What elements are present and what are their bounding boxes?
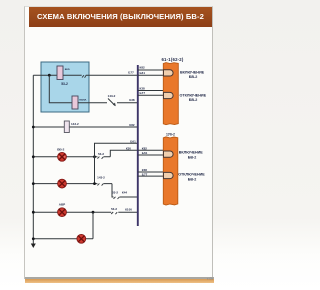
wire lamp БВ-2 row (33, 156, 110, 158)
node on bus row БВ-2 (32, 155, 35, 158)
node on bus row К82 (32, 126, 35, 129)
wire riser lamp4 to АВР row (92, 212, 94, 239)
wire К82 to connector 61-1 (138, 69, 164, 71)
contact pin 1 (X1 вкл.) (164, 70, 174, 76)
svg-text:ОТКЛЮЧЕНИЕ: ОТКЛЮЧЕНИЕ (178, 173, 205, 177)
svg-text:К82: К82 (129, 123, 134, 127)
svg-text:К44: К44 (122, 191, 127, 195)
coil K1 (вкл.) (57, 66, 70, 80)
contact pin 4 (X2 откл.) (164, 172, 174, 178)
wire Б77 to connector 61-1 (138, 94, 164, 96)
svg-text:БВ-2: БВ-2 (189, 98, 198, 102)
switch 53-2 on К44 row (114, 197, 120, 199)
connector X2 1У6-2 (163, 133, 178, 205)
node riser row БВ-2 (93, 155, 96, 158)
svg-text:К38: К38 (129, 98, 134, 102)
wire row К82 (33, 126, 138, 128)
svg-text:53-2: 53-2 (61, 82, 68, 86)
svg-text:БВ-2: БВ-2 (57, 148, 64, 152)
connector X1 61-1(62-2) (161, 57, 183, 125)
lamp HL1 БВ-2 (57, 148, 66, 162)
wire К38 from coil K2 (78, 102, 138, 104)
svg-text:Б61: Б61 (140, 71, 146, 75)
svg-text:ВКЛЮЧЕНИЕ: ВКЛЮЧЕНИЕ (180, 70, 205, 74)
svg-text:53-2: 53-2 (98, 152, 104, 156)
wire row1 into box (33, 74, 57, 76)
wire cable loom bus (137, 65, 139, 226)
wire left supply bus (32, 75, 34, 243)
coil K2 (выкл.) (72, 96, 87, 109)
svg-text:К30: К30 (126, 146, 131, 150)
svg-text:К38: К38 (140, 86, 145, 90)
svg-text:вкл.: вкл. (65, 68, 71, 71)
svg-text:БВ-2: БВ-2 (188, 177, 197, 181)
node on bus row АВР (32, 211, 35, 214)
wire К82 to connector 1У6-2 (138, 149, 164, 151)
svg-text:Б77: Б77 (128, 71, 134, 75)
wire lamp2 row (33, 183, 112, 185)
node АВР riser (92, 211, 95, 214)
relay unit box 53-2 (41, 62, 89, 112)
lamp HL2 (58, 179, 67, 188)
svg-text:61-1(62-2): 61-1(62-2) (161, 57, 183, 62)
bottom rail (25, 277, 214, 279)
svg-text:Б61: Б61 (130, 139, 136, 143)
wire Б61 to connector 1У6-2 (138, 154, 164, 156)
contact pin 2 (X1 откл.) (164, 92, 174, 98)
switch 53-2 on АВР row (111, 212, 117, 214)
lamp HL4 (77, 234, 86, 243)
wire К38 to connector 61-1 (138, 90, 164, 92)
wire Б77 to connector 1У6-2 (138, 175, 164, 177)
wire АВР row (33, 211, 138, 213)
svg-text:Б61: Б61 (142, 151, 148, 155)
wire branch to coil K2 (49, 75, 72, 103)
wire К44 row to cable bus (112, 184, 138, 197)
wire Б61 to connector 61-1 (138, 74, 164, 76)
contactor block 143-2 (64, 121, 79, 133)
svg-text:1У6-2: 1У6-2 (166, 133, 175, 137)
svg-text:ОТКЛЮЧЕНИЕ: ОТКЛЮЧЕНИЕ (180, 93, 207, 97)
wire lamp4 row (33, 238, 93, 240)
svg-text:ВКЛЮЧЕНИЕ: ВКЛЮЧЕНИЕ (179, 151, 204, 155)
svg-text:АВР: АВР (59, 203, 66, 207)
wire К38 to connector 1У6-2 (138, 171, 164, 173)
switch 143-2 lamp row2 (97, 183, 103, 185)
svg-text:53-2: 53-2 (112, 191, 118, 195)
node riser row lamp2 (93, 182, 96, 185)
wire Б61 to cable bus (95, 143, 138, 157)
wire Б77 out of 53-2 (86, 74, 138, 76)
lamp HL3 АВР (58, 203, 67, 217)
svg-text:Б77: Б77 (142, 172, 148, 176)
ground (31, 244, 36, 249)
contact pin 3 (X2 вкл.) (164, 151, 174, 157)
node junction inside 53-2 (48, 74, 51, 77)
wire coil K1 to contact break (63, 74, 82, 76)
svg-text:143-2: 143-2 (71, 122, 79, 126)
wire К30 to cable bus (110, 150, 138, 157)
svg-text:143-2: 143-2 (97, 175, 105, 179)
contact break (53-2 interlock) (82, 75, 86, 78)
svg-text:К100: К100 (125, 207, 132, 211)
switch 53-2 row БВ-2 (97, 157, 103, 159)
node on bus row lamp2 (32, 182, 35, 185)
wire riser between lamp rows (94, 143, 96, 183)
svg-text:выкл.: выкл. (79, 99, 87, 102)
switch 143-2 (knife arrow) (108, 94, 116, 107)
svg-text:БВ-2: БВ-2 (188, 155, 197, 159)
svg-text:К82: К82 (142, 146, 147, 150)
title bar (29, 7, 212, 27)
svg-text:53-2: 53-2 (111, 207, 117, 211)
svg-text:Б77: Б77 (140, 91, 146, 95)
svg-text:143-2: 143-2 (108, 94, 116, 98)
svg-text:К82: К82 (140, 66, 145, 70)
svg-text:БВ-2: БВ-2 (189, 75, 198, 79)
node on bus row lamp4 (32, 237, 35, 240)
